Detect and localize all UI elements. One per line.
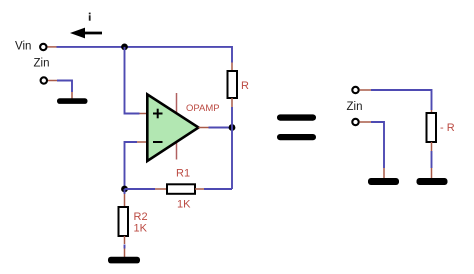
pin stub T1 <box>360 89 372 91</box>
pin stub Vin <box>48 46 57 48</box>
pin stub R1 left <box>155 188 167 190</box>
wire node C to R2 top <box>124 189 126 194</box>
node C junction dot <box>121 186 128 193</box>
pin stub R1 right <box>195 188 204 190</box>
resistor R body <box>228 71 238 98</box>
wire - input to node C <box>125 142 138 189</box>
ground GND2 <box>108 257 140 264</box>
pin stub ground GND1 <box>71 92 73 99</box>
pin stub Zin <box>48 80 57 82</box>
svg-text:R: R <box>241 80 249 92</box>
op-amp - symbol <box>153 141 163 143</box>
wire -R to ground GND4 <box>431 151 433 168</box>
pin stub ground GND2 <box>124 249 126 258</box>
wire Zin to ground GND1 <box>57 81 72 93</box>
op-amp + symbol <box>153 109 163 119</box>
svg-text:Zin: Zin <box>34 58 50 70</box>
current arrow i <box>70 28 102 39</box>
op-amp U1 triangle <box>147 94 198 161</box>
wire R2 to ground GND2 <box>124 245 126 249</box>
resistor R1 body <box>167 184 195 194</box>
ground GND1 <box>57 98 88 104</box>
op-amp U1 V+ pin <box>176 93 178 114</box>
wire Vin to node A <box>57 46 125 48</box>
pin stub -R bottom <box>431 142 433 151</box>
op-amp U1 V- pin <box>176 142 178 160</box>
pin stub T2 <box>360 121 372 123</box>
ground GND4 <box>417 178 448 185</box>
wire output to node B <box>209 127 233 129</box>
pin stub - input <box>137 141 147 143</box>
pin stub ground GND3 <box>383 168 385 178</box>
svg-text:1K: 1K <box>177 199 191 211</box>
terminal T1 right circuit <box>352 87 358 93</box>
node B junction dot <box>229 124 236 131</box>
pin stub -R top <box>431 110 433 113</box>
ground GND3 <box>368 178 399 185</box>
svg-text:R1: R1 <box>176 168 190 180</box>
pin stub R2 bottom <box>124 236 126 244</box>
svg-text:Zin: Zin <box>347 101 363 113</box>
resistor R2 body <box>119 207 129 236</box>
pin stub R2 top <box>124 194 126 207</box>
pin stub ground GND4 <box>431 168 433 178</box>
pin stub resistor R bottom <box>231 98 233 107</box>
wire node C to R1 left <box>125 188 156 190</box>
wire R bottom to node B <box>231 107 233 128</box>
pin stub op-amp output <box>199 127 209 129</box>
pin stub + input <box>140 113 148 115</box>
node A junction dot <box>121 44 128 51</box>
svg-text:OPAMP: OPAMP <box>186 103 220 114</box>
svg-text:Vin: Vin <box>15 41 31 53</box>
terminal T2 right circuit <box>352 119 358 125</box>
wire node A to op-amp + input <box>125 47 140 114</box>
equivalence sign <box>277 114 316 140</box>
wire node A to resistor R top <box>125 47 233 63</box>
label i <box>89 13 91 21</box>
svg-text:- R: - R <box>440 122 455 134</box>
wire R1 right to node B vertical <box>204 188 232 190</box>
wire T2 to ground GND3 <box>371 122 384 168</box>
terminal Zin <box>41 77 47 83</box>
wire node B down to R1 right <box>231 128 233 190</box>
pin stub resistor R top <box>231 63 233 72</box>
terminal Vin <box>40 44 46 50</box>
svg-text:1K: 1K <box>134 223 148 235</box>
resistor -R body <box>427 113 437 142</box>
wire T1 to resistor -R <box>371 90 432 110</box>
svg-text:R2: R2 <box>134 211 148 223</box>
